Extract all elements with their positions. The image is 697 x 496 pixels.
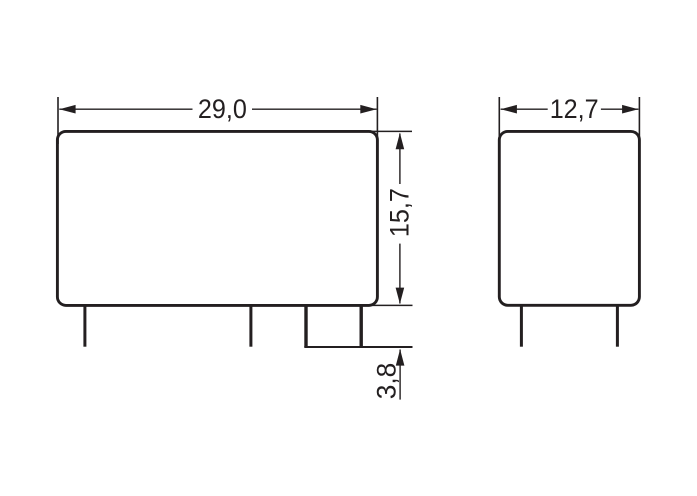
extension line right (29,0) bbox=[376, 97, 378, 144]
arrowhead down (15,7) bbox=[396, 288, 405, 304]
wide pin right edge bbox=[360, 305, 363, 347]
extension line left (29,0) bbox=[57, 97, 59, 144]
extension line left (12,7) bbox=[498, 97, 500, 144]
relay body front view bbox=[57, 131, 377, 305]
arrowhead right (29,0) bbox=[360, 105, 376, 114]
dimension line 12,7 right segment bbox=[601, 108, 639, 110]
svg-text:15,7: 15,7 bbox=[384, 188, 414, 237]
arrowhead left (29,0) bbox=[59, 105, 75, 114]
dimension line 12,7 left segment bbox=[501, 108, 548, 110]
dimension line 15,7 upper segment bbox=[399, 134, 401, 185]
relay body side view bbox=[499, 131, 639, 305]
pin side view left bbox=[520, 305, 523, 347]
dimension line 29,0 right segment bbox=[252, 108, 377, 110]
extension line right (12,7) bbox=[638, 97, 640, 144]
dimension line 15,7 lower segment bbox=[399, 244, 401, 304]
arrowhead up (15,7) bbox=[396, 133, 405, 149]
svg-text:3,8: 3,8 bbox=[371, 363, 401, 400]
dimension line 3,8 bbox=[399, 350, 401, 400]
wide pin bottom edge + extension line (3,8) bbox=[304, 346, 412, 348]
svg-text:29,0: 29,0 bbox=[198, 94, 247, 124]
extension line bottom (15,7) bbox=[368, 304, 413, 306]
pin 1 front view bbox=[83, 305, 86, 347]
pin side view right bbox=[616, 305, 619, 347]
arrowhead left (12,7) bbox=[501, 105, 517, 114]
pin 2 front view bbox=[249, 305, 252, 347]
arrowhead right (12,7) bbox=[622, 105, 638, 114]
svg-text:12,7: 12,7 bbox=[550, 94, 599, 124]
arrowhead up (3,8) bbox=[396, 349, 405, 365]
extension line top (15,7) bbox=[371, 130, 412, 132]
wide pin left edge bbox=[304, 305, 307, 347]
dimension line 29,0 left segment bbox=[59, 108, 192, 110]
